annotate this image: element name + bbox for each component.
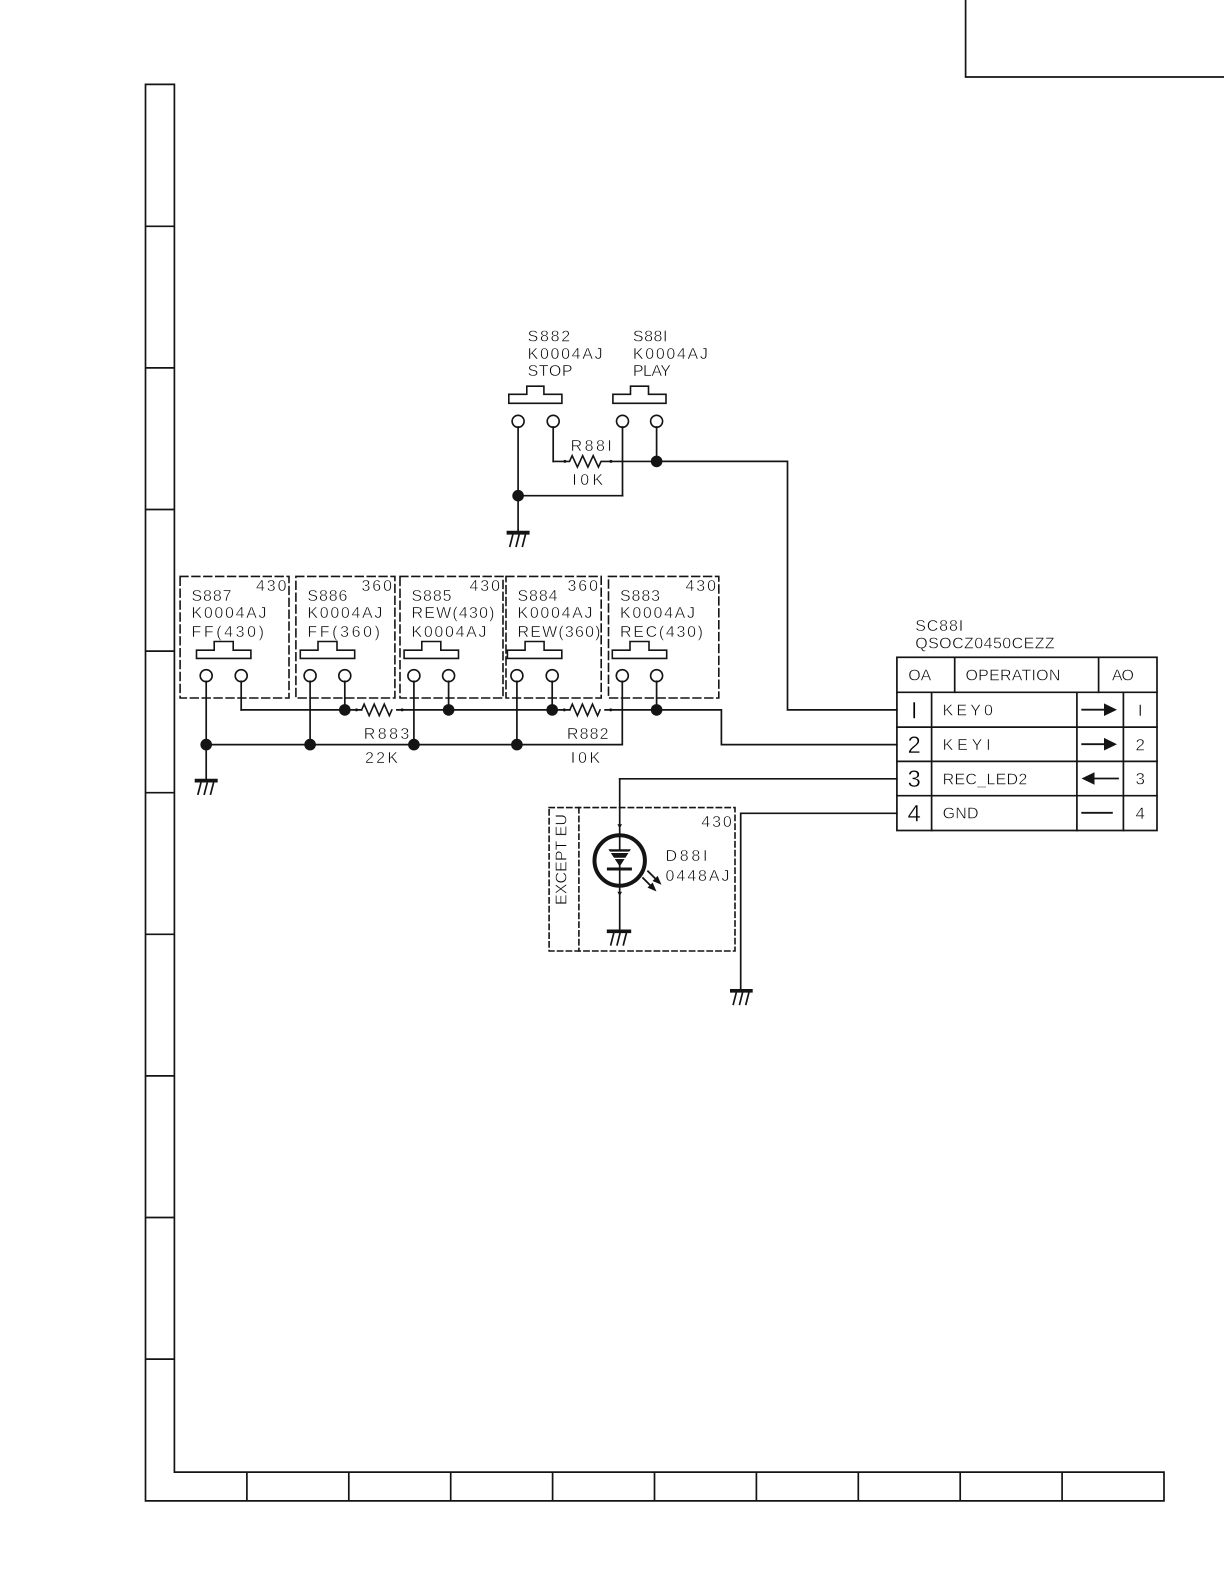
wire S881 right pin down	[656, 427, 658, 461]
pin 2 KEY1	[908, 732, 1145, 759]
wire S885 left pin down	[413, 681, 415, 744]
switch S882 STOP	[509, 329, 603, 428]
switch S884 REW(360)	[506, 576, 601, 698]
junction node KEY0 net	[651, 456, 663, 468]
wire S884 left pin down	[516, 681, 518, 744]
pin 1 KEY0	[911, 697, 1143, 724]
wire GND to connector pin 4	[741, 813, 897, 989]
svg-text:360: 360	[362, 578, 393, 595]
svg-text:I: I	[1138, 701, 1143, 720]
svg-text:EXCEPT EU: EXCEPT EU	[554, 814, 571, 905]
svg-text:S886: S886	[307, 588, 347, 605]
wire S883 right pin down	[656, 681, 658, 710]
svg-text:REW(430): REW(430)	[412, 605, 495, 622]
ground	[509, 533, 528, 547]
svg-text:KEYI: KEYI	[943, 737, 991, 754]
svg-text:STOP: STOP	[528, 363, 573, 380]
svg-text:SC88I: SC88I	[915, 618, 963, 635]
svg-text:K0004AJ: K0004AJ	[307, 605, 382, 622]
resistor R882 10K	[563, 704, 612, 767]
svg-text:REC_LED2: REC_LED2	[943, 771, 1028, 788]
wire S887 left pin to ground bus	[205, 681, 207, 779]
wire S885 right pin down	[448, 681, 450, 710]
pin 3 REC_LED2	[908, 766, 1145, 793]
svg-text:S884: S884	[518, 588, 558, 605]
svg-text:K0004AJ: K0004AJ	[412, 624, 487, 641]
svg-text:D88I: D88I	[666, 848, 708, 865]
svg-text:I0K: I0K	[571, 750, 601, 767]
svg-text:430: 430	[686, 578, 717, 595]
svg-text:REC(430): REC(430)	[620, 624, 703, 641]
option box EXCEPT EU	[549, 808, 735, 951]
wire lower ground bus	[206, 681, 622, 744]
svg-text:22K: 22K	[365, 750, 398, 767]
wire S887 right pin down	[240, 681, 242, 710]
junction S885 left	[408, 739, 420, 751]
svg-text:0448AJ: 0448AJ	[666, 868, 730, 885]
wire upper bus middle segment	[397, 709, 570, 711]
ground	[197, 781, 216, 795]
svg-text:K0004AJ: K0004AJ	[518, 605, 593, 622]
svg-text:3: 3	[1135, 770, 1144, 789]
svg-text:K0004AJ: K0004AJ	[528, 346, 603, 363]
switch S887 FF(430)	[180, 576, 289, 698]
wire ground net horizontal	[518, 495, 622, 497]
svg-text:I0K: I0K	[572, 472, 603, 489]
wire S886 left pin down	[309, 681, 311, 744]
ground	[732, 991, 751, 1005]
svg-text:GND: GND	[943, 806, 979, 823]
svg-text:OA: OA	[908, 668, 931, 685]
junction S886 left	[304, 739, 316, 751]
svg-text:4: 4	[908, 800, 921, 827]
svg-text:S887: S887	[192, 588, 232, 605]
wire upper bus right segment to KEY1 pin 2	[605, 710, 897, 745]
wire REC_LED2 to connector pin 3	[620, 778, 897, 780]
svg-text:S885: S885	[412, 588, 452, 605]
svg-text:R883: R883	[364, 726, 410, 743]
wire LED anode vertical	[619, 779, 621, 930]
junction S884 left	[511, 739, 523, 751]
svg-text:KEY0: KEY0	[943, 703, 993, 720]
svg-text:360: 360	[568, 578, 599, 595]
wire S881 left pin down	[622, 427, 624, 496]
svg-text:R88I: R88I	[571, 438, 612, 455]
switch S886 FF(360)	[296, 576, 395, 698]
svg-text:430: 430	[256, 578, 287, 595]
junction S883 right on bus	[651, 704, 663, 716]
junction S886 right on bus	[339, 704, 351, 716]
svg-text:430: 430	[470, 578, 501, 595]
connector SC881 QSOCZ0450CEZZ	[897, 618, 1157, 831]
svg-text:AO: AO	[1112, 668, 1134, 685]
pin 4 GND	[908, 800, 1145, 827]
svg-text:OPERATION: OPERATION	[966, 668, 1061, 685]
svg-text:K0004AJ: K0004AJ	[633, 346, 708, 363]
wire S886 right pin down	[344, 681, 346, 710]
wire upper bus left segment	[241, 709, 361, 711]
svg-text:PLAY: PLAY	[633, 363, 671, 380]
wire S882 right pin down	[552, 427, 554, 461]
resistor R881 10K	[553, 438, 656, 489]
wire S882 left pin to ground	[517, 427, 519, 531]
svg-text:2: 2	[908, 732, 921, 759]
switch S883 REC(430)	[609, 576, 719, 698]
wire S884 right pin down	[551, 681, 553, 710]
svg-text:R882: R882	[567, 726, 609, 743]
svg-text:K0004AJ: K0004AJ	[192, 605, 267, 622]
junction S884 right on bus	[546, 704, 558, 716]
junction S885 right on bus	[443, 704, 455, 716]
svg-text:I: I	[911, 697, 918, 724]
svg-text:S883: S883	[620, 588, 660, 605]
svg-text:QSOCZ0450CEZZ: QSOCZ0450CEZZ	[915, 635, 1055, 652]
switch S881 PLAY	[613, 329, 708, 428]
svg-text:FF(360): FF(360)	[307, 624, 380, 641]
svg-text:S882: S882	[528, 329, 571, 346]
ground	[609, 931, 630, 945]
junction node S882/S881 ground net	[512, 490, 524, 502]
svg-text:2: 2	[1135, 735, 1144, 754]
junction S887 left	[200, 739, 212, 751]
switch S885 REW(430)	[400, 576, 503, 698]
svg-text:FF(430): FF(430)	[192, 624, 265, 641]
svg-text:K0004AJ: K0004AJ	[620, 605, 695, 622]
resistor R883 22K	[355, 704, 409, 767]
wire KEY0 to connector pin 1	[657, 461, 897, 710]
svg-text:S88I: S88I	[633, 329, 668, 346]
svg-text:3: 3	[908, 766, 921, 793]
LED D881 0448AJ	[595, 824, 730, 896]
svg-text:4: 4	[1135, 804, 1144, 823]
svg-text:430: 430	[701, 814, 732, 831]
svg-text:REW(360): REW(360)	[518, 624, 601, 641]
